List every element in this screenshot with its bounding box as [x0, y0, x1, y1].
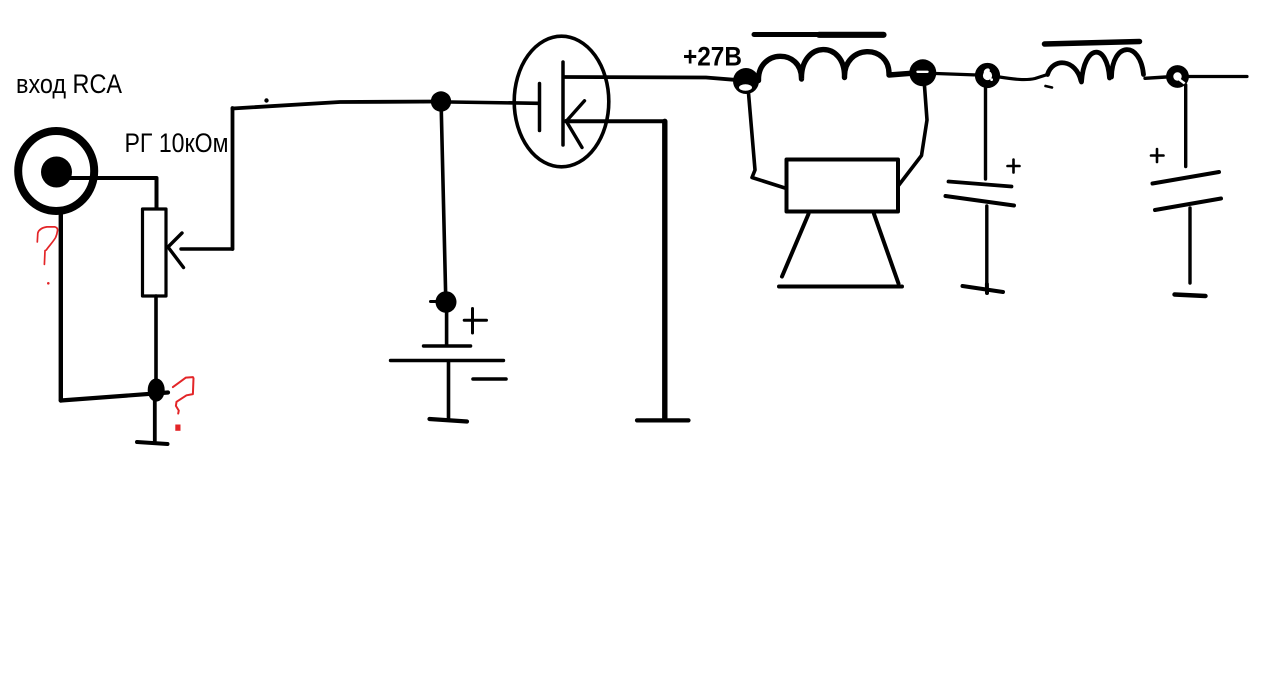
wire pot bottom to node C — [154, 296, 158, 380]
svg-text:РГ 10кОм: РГ 10кОм — [125, 128, 229, 158]
inductor L1 core bar — [754, 32, 820, 37]
ground GND4 — [1175, 295, 1206, 297]
inductor L1 winding — [758, 50, 911, 81]
wire node B to battery — [445, 312, 449, 345]
potentiometer R1 wiper arrow — [168, 233, 184, 268]
node N4 — [1170, 69, 1186, 85]
tick left of node B — [431, 300, 438, 303]
junction node B — [436, 291, 457, 313]
wire top horizontal to node A — [233, 102, 442, 109]
battery B1 positive plate — [424, 344, 471, 347]
wire emitter to ground — [566, 119, 663, 123]
RCA connector J1 center pin — [41, 157, 72, 188]
transistor Q1 emitter arrow — [566, 101, 585, 148]
junction node C — [148, 378, 165, 401]
capacitor C1 top plate — [949, 182, 1012, 187]
capacitor C1 plus sign — [1008, 160, 1020, 173]
battery B1 negative plate — [391, 359, 504, 362]
wire N4 down to capacitor C2 — [1184, 85, 1187, 167]
inductor L2 tail wire — [1145, 77, 1166, 78]
wire C2 to ground — [1188, 208, 1191, 283]
capacitor C1 bottom plate — [946, 196, 1015, 206]
wire node A down to node B — [441, 111, 445, 292]
transistor Q1 channel bar — [561, 62, 565, 145]
stray dot on top wire — [264, 98, 268, 102]
stray dash under wire — [1046, 86, 1053, 88]
wire collector to +27V node N1 — [564, 77, 735, 80]
wire N2 down to speaker right terminal — [899, 86, 928, 186]
wire N1 down to speaker left terminal — [749, 93, 787, 189]
svg-text:вход RCA: вход RCA — [16, 69, 122, 99]
capacitor C2 top plate — [1153, 172, 1220, 184]
RCA connector J1 outer ring — [18, 131, 94, 211]
node N1 — [733, 68, 759, 94]
wire C1 to ground — [985, 206, 988, 284]
transistor Q1 gate bar — [538, 84, 542, 131]
speaker LS1 cone — [779, 214, 902, 287]
potentiometer R1 body — [143, 209, 167, 296]
wire node C to ground — [153, 400, 157, 441]
battery minus sign — [473, 377, 506, 381]
wire RCA shield down — [59, 213, 63, 401]
wire N4 to right end — [1188, 75, 1247, 78]
ground GND0 — [137, 442, 168, 444]
node N3 — [979, 67, 996, 84]
red question mark 1 — [37, 227, 57, 265]
potentiometer R1 wiper wire — [181, 247, 233, 250]
wire node A to transistor gate — [450, 102, 538, 103]
red question mark 2 — [173, 377, 194, 413]
inductor L2 core bar — [1045, 42, 1140, 45]
capacitor C2 plus sign — [1151, 149, 1164, 162]
ground GND1 — [430, 419, 468, 422]
svg-text:+27В: +27В — [683, 42, 742, 72]
wire wiper riser up — [231, 108, 235, 249]
node N2 — [909, 59, 936, 86]
junction node A — [431, 91, 451, 111]
wire N3 down to capacitor C1 — [984, 88, 987, 179]
inductor L2 winding — [1048, 50, 1144, 82]
transistor Q1 body circle — [514, 36, 609, 167]
wire RCA pin to potentiometer top — [69, 178, 157, 210]
wire N2 to N3 — [936, 74, 978, 76]
wire battery to ground — [447, 362, 451, 419]
wire shield diagonal to node C — [61, 393, 168, 401]
wire N3 to inductor L2 — [1000, 75, 1048, 80]
ground GND2 — [637, 418, 689, 422]
speaker LS1 frame — [787, 160, 899, 212]
ground GND3 — [963, 284, 1004, 293]
battery plus sign — [464, 309, 486, 334]
capacitor C2 bottom plate — [1155, 199, 1221, 211]
